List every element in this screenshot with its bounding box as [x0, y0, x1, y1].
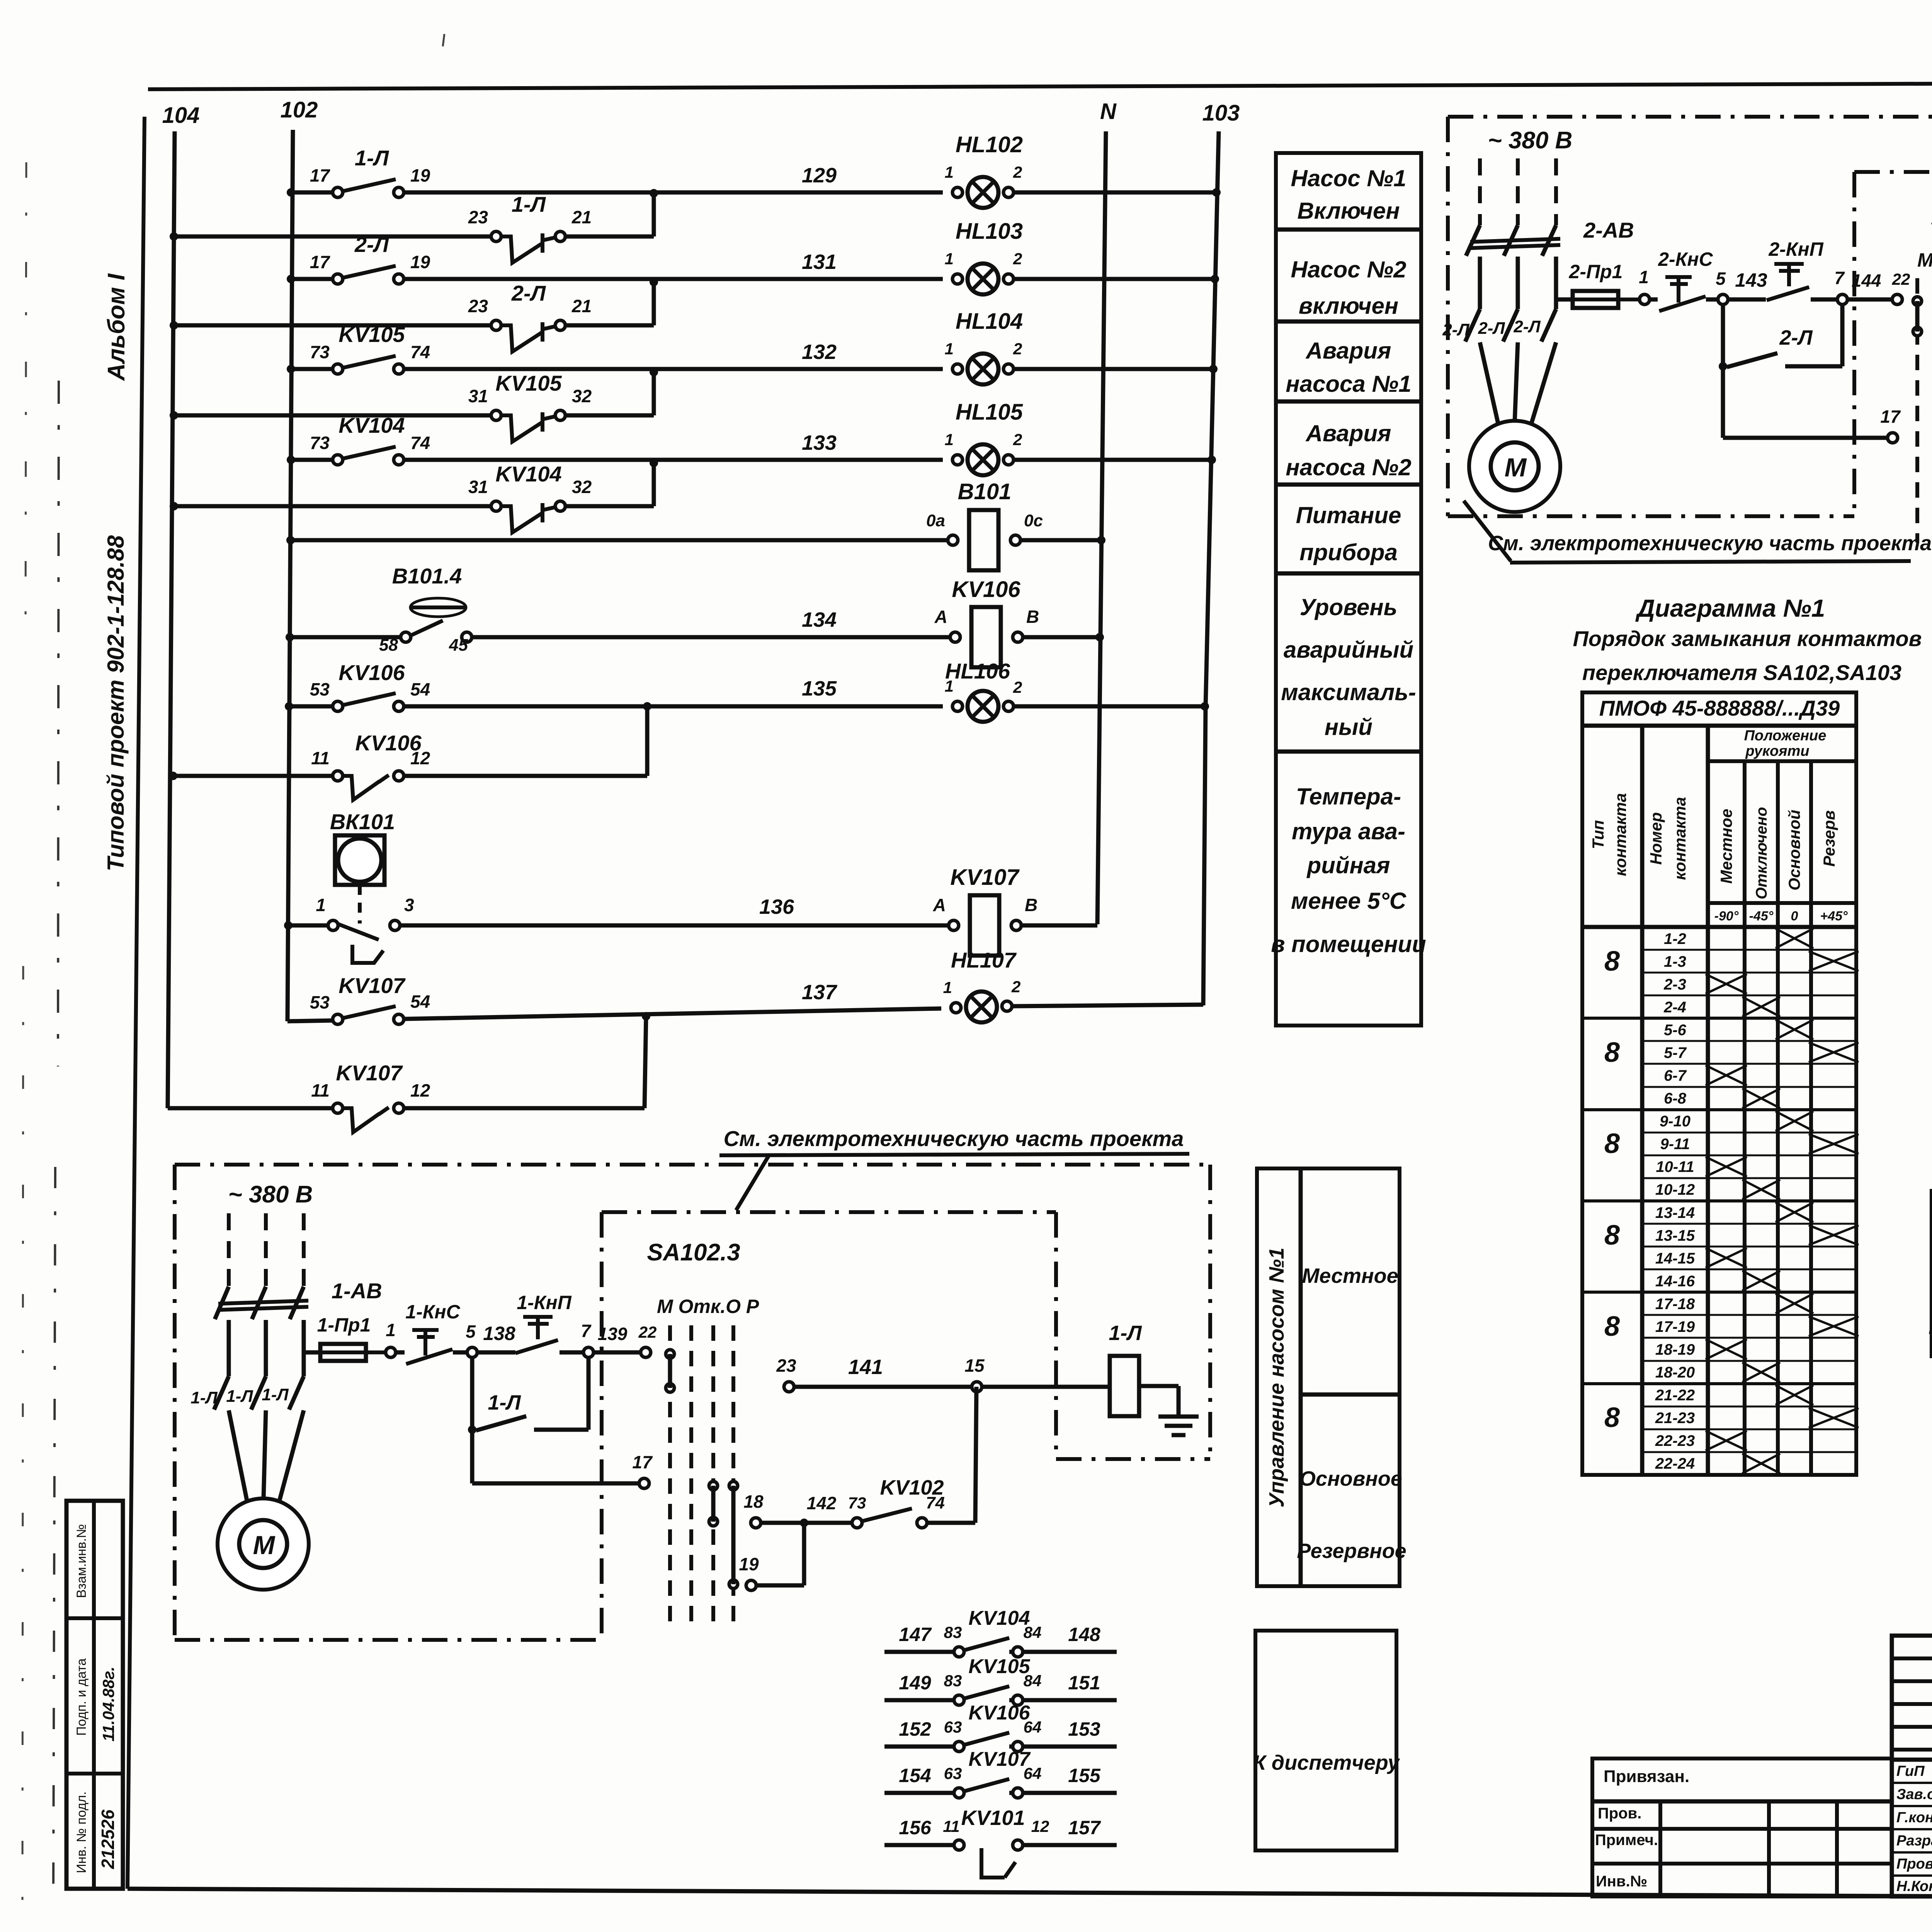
rung contact KV107 11-12 from bus 104 — [168, 1106, 333, 1111]
svg-text:SA102.3: SA102.3 — [647, 1239, 740, 1266]
svg-text:1-КнС: 1-КнС — [405, 1301, 460, 1323]
svg-text:5-7: 5-7 — [1664, 1044, 1687, 1061]
control table pump 1 — [1257, 1168, 1400, 1586]
svg-text:1: 1 — [386, 1320, 396, 1340]
svg-text:15: 15 — [964, 1355, 985, 1376]
svg-text:12: 12 — [410, 1080, 430, 1100]
svg-text:7: 7 — [1834, 268, 1845, 288]
switch row 21-22 — [1582, 1382, 1856, 1385]
svg-text:2-Л: 2-Л — [1513, 317, 1541, 336]
float symbol — [410, 598, 466, 617]
bus 102 — [287, 130, 293, 1021]
svg-text:63: 63 — [944, 1764, 962, 1782]
svg-text:2: 2 — [1011, 978, 1020, 996]
switch row 5-6 — [1582, 1017, 1856, 1020]
rung NC contact 1-Л from bus 104 — [170, 232, 178, 241]
svg-text:6-7: 6-7 — [1664, 1067, 1687, 1084]
svg-text:Отключено: Отключено — [1753, 807, 1770, 899]
drawing frame left border — [128, 117, 145, 1889]
svg-text:максималь-: максималь- — [1281, 679, 1416, 705]
svg-text:129: 129 — [802, 164, 837, 187]
svg-text:Авария: Авария — [1305, 338, 1391, 364]
svg-text:Насос №1: Насос №1 — [1291, 165, 1406, 191]
svg-text:142: 142 — [807, 1493, 837, 1513]
svg-text:134: 134 — [802, 608, 837, 631]
svg-text:63: 63 — [944, 1718, 962, 1736]
drawing frame top border — [148, 81, 1932, 89]
svg-text:2-Л: 2-Л — [1779, 326, 1813, 349]
svg-text:Тип: Тип — [1589, 820, 1607, 849]
rung NC contact 2-Л from bus 104 — [170, 321, 178, 330]
svg-text:73: 73 — [310, 342, 330, 362]
svg-text:138: 138 — [483, 1323, 515, 1344]
svg-text:2: 2 — [1013, 250, 1022, 268]
svg-text:17-18: 17-18 — [1655, 1296, 1695, 1313]
svg-text:2-4: 2-4 — [1663, 999, 1686, 1016]
svg-text:64: 64 — [1024, 1764, 1042, 1782]
svg-text:13-14: 13-14 — [1655, 1204, 1695, 1221]
svg-text:5-6: 5-6 — [1664, 1022, 1687, 1039]
wire 19 row — [746, 1580, 756, 1590]
svg-text:74: 74 — [410, 342, 430, 362]
svg-text:58: 58 — [379, 636, 398, 655]
contact row KV107 — [884, 1791, 954, 1795]
switch row 22-24 — [1642, 1451, 1856, 1453]
svg-text:17: 17 — [310, 252, 331, 272]
svg-text:83: 83 — [944, 1672, 962, 1690]
rung lamp HL105 with contact KV104 — [287, 456, 295, 464]
svg-text:ВК101: ВК101 — [330, 810, 395, 834]
ground — [1158, 1415, 1199, 1419]
enclosure dash-dot box pump1 — [175, 1163, 1210, 1167]
svg-text:рукояти: рукояти — [1745, 743, 1809, 759]
svg-text:31: 31 — [468, 386, 488, 406]
contact row KV105 — [884, 1698, 954, 1702]
svg-text:10-11: 10-11 — [1656, 1158, 1694, 1175]
wire junction down — [645, 1016, 646, 1108]
svg-text:8: 8 — [1604, 1037, 1620, 1068]
svg-text:2-Л: 2-Л — [1442, 320, 1469, 339]
wire 141 from 23 to 15 — [784, 1382, 794, 1392]
svg-text:Насос №2: Насос №2 — [1291, 257, 1406, 282]
svg-text:Привязан.: Привязан. — [1604, 1767, 1689, 1786]
terminal 1 — [386, 1347, 396, 1357]
svg-text:Уровень: Уровень — [1300, 594, 1397, 620]
svg-text:132: 132 — [802, 340, 837, 364]
svg-text:18-19: 18-19 — [1655, 1341, 1695, 1358]
svg-text:См. электротехническую часть: См. электротехническую часть проекта — [724, 1126, 1184, 1151]
svg-text:18-20: 18-20 — [1655, 1364, 1695, 1381]
contact row KV106 — [884, 1745, 954, 1749]
svg-text:Типовой проект 902-1-128.88: Типовой проект 902-1-128.88 — [103, 535, 129, 871]
svg-text:1-КнП: 1-КнП — [517, 1292, 571, 1313]
svg-text:2-КнС: 2-КнС — [1658, 248, 1713, 270]
drawing frame bottom border — [128, 1889, 1932, 1900]
svg-text:Резерв: Резерв — [1820, 810, 1838, 867]
svg-text:143: 143 — [1735, 269, 1767, 291]
contactor coil 1-L — [1110, 1356, 1139, 1416]
svg-text:Включен: Включен — [1297, 198, 1400, 224]
svg-text:Альбом I: Альбом I — [103, 273, 130, 381]
circuit breaker 2-AB — [1470, 239, 1560, 242]
svg-text:73: 73 — [310, 433, 330, 453]
svg-text:К диспетчеру: К диспетчеру — [1253, 1751, 1401, 1774]
rung lamp HL102 with contact 1-Л — [287, 188, 295, 197]
svg-text:53: 53 — [310, 679, 330, 699]
svg-text:83: 83 — [944, 1623, 962, 1641]
wire to upper rung — [652, 372, 656, 415]
svg-text:Авария: Авария — [1305, 420, 1391, 446]
svg-text:102: 102 — [281, 97, 318, 122]
svg-text:1-Л: 1-Л — [190, 1388, 218, 1407]
rung BK101 contact 1-3 with relay KV107 — [284, 921, 293, 930]
svg-text:HL106: HL106 — [945, 659, 1010, 683]
stop button 1-KnS — [412, 1328, 439, 1332]
svg-text:53: 53 — [310, 992, 330, 1012]
svg-text:2-Пр1: 2-Пр1 — [1569, 261, 1623, 282]
switch row 18-19 — [1642, 1337, 1856, 1339]
rung NC contact KV104 from bus 104 — [170, 502, 178, 510]
terminal 5 — [467, 1347, 477, 1357]
svg-text:насоса №1: насоса №1 — [1286, 371, 1411, 397]
svg-text:22: 22 — [1892, 270, 1910, 288]
svg-text:1: 1 — [945, 163, 954, 181]
svg-text:Диаграмма №1: Диаграмма №1 — [1635, 594, 1825, 622]
svg-text:В101.4: В101.4 — [392, 564, 462, 588]
switch row 14-15 — [1642, 1246, 1856, 1248]
svg-text:153: 153 — [1068, 1718, 1100, 1740]
svg-text:Пров.: Пров. — [1896, 1856, 1932, 1872]
svg-text:135: 135 — [802, 677, 837, 700]
svg-text:Пров.: Пров. — [1598, 1805, 1641, 1822]
svg-text:17-19: 17-19 — [1655, 1318, 1695, 1335]
svg-text:менее 5°С: менее 5°С — [1291, 888, 1407, 914]
svg-text:тура ава-: тура ава- — [1292, 818, 1405, 844]
svg-text:М Отк О Р: М Отк О Р — [1917, 249, 1932, 271]
left margin dashed marks — [58, 381, 59, 1066]
switch row 2-4 — [1642, 995, 1856, 997]
fuse 1-Pr1 — [304, 1350, 320, 1355]
svg-text:11: 11 — [311, 1080, 330, 1100]
contact row KV101 — [884, 1843, 954, 1847]
wire from KV106 11-12 up — [645, 706, 650, 776]
svg-text:1-Л: 1-Л — [1109, 1321, 1142, 1345]
switch row 21-23 — [1642, 1406, 1856, 1408]
svg-text:2-Л: 2-Л — [511, 281, 546, 305]
rung contact KV106 53-54 with lamp HL106 — [285, 702, 293, 711]
svg-text:2: 2 — [1013, 340, 1022, 358]
svg-text:19: 19 — [410, 165, 430, 185]
terminal 5 pump2 — [1718, 294, 1728, 304]
svg-text:Резервное: Резервное — [1297, 1539, 1406, 1563]
svg-text:17: 17 — [632, 1452, 653, 1472]
switch row 1-3 — [1642, 949, 1856, 951]
svg-text:212526: 212526 — [98, 1810, 118, 1869]
svg-text:141: 141 — [848, 1355, 883, 1379]
svg-text:154: 154 — [899, 1765, 931, 1786]
svg-text:2: 2 — [1013, 163, 1022, 181]
svg-text:64: 64 — [1024, 1718, 1042, 1736]
switch row 13-14 — [1582, 1199, 1856, 1202]
svg-text:18: 18 — [743, 1492, 764, 1512]
svg-text:Инв. № подл.: Инв. № подл. — [74, 1791, 89, 1873]
svg-text:156: 156 — [899, 1817, 932, 1838]
switch row 9-11 — [1642, 1132, 1856, 1134]
svg-text:104: 104 — [162, 103, 200, 128]
svg-text:19: 19 — [410, 252, 430, 272]
svg-text:+45°: +45° — [1820, 909, 1848, 923]
switch row 17-18 — [1582, 1291, 1856, 1294]
switch row 2-3 — [1642, 972, 1856, 974]
circuit breaker 1-AB — [218, 1301, 308, 1304]
svg-text:Примеч.: Примеч. — [1595, 1832, 1658, 1849]
svg-text:8: 8 — [1604, 1402, 1620, 1433]
svg-text:21-22: 21-22 — [1655, 1387, 1695, 1404]
svg-text:М: М — [1505, 453, 1527, 482]
svg-text:1-Л: 1-Л — [488, 1391, 521, 1414]
svg-text:в помещении: в помещении — [1271, 931, 1426, 957]
svg-text:157: 157 — [1068, 1817, 1101, 1838]
svg-text:0: 0 — [1791, 909, 1798, 923]
rung contact KV107 53-54 with lamp HL107 — [287, 1020, 333, 1021]
svg-text:11: 11 — [943, 1817, 960, 1835]
svg-text:21: 21 — [571, 296, 592, 316]
svg-text:137: 137 — [802, 981, 838, 1004]
svg-text:-90°: -90° — [1714, 909, 1739, 923]
svg-text:6-8: 6-8 — [1664, 1090, 1687, 1107]
legend table column — [1276, 153, 1421, 1026]
wire to upper rung — [652, 463, 656, 506]
terminal 7 pump2 — [1837, 294, 1847, 304]
three phase lines — [227, 1213, 231, 1287]
svg-text:Подп. и дата: Подп. и дата — [74, 1658, 89, 1736]
svg-text:А: А — [934, 607, 947, 627]
wire to upper rung — [652, 282, 656, 325]
svg-text:Зав.отд.: Зав.отд. — [1896, 1786, 1932, 1803]
svg-text:22: 22 — [638, 1323, 657, 1341]
svg-text:Управление насосом №1: Управление насосом №1 — [1265, 1248, 1288, 1508]
svg-text:-45°: -45° — [1749, 909, 1774, 923]
svg-text:М Отк.О Р: М Отк.О Р — [657, 1296, 759, 1317]
dispatcher box — [1255, 1631, 1396, 1850]
svg-text:147: 147 — [899, 1624, 932, 1645]
svg-text:А: А — [933, 895, 946, 915]
switch row 22-23 — [1642, 1429, 1856, 1430]
svg-text:54: 54 — [410, 992, 430, 1012]
motor M1 — [218, 1498, 309, 1590]
switch row 6-7 — [1642, 1063, 1856, 1065]
svg-text:Положение: Положение — [1744, 728, 1827, 744]
svg-text:~ 380 В: ~ 380 В — [228, 1181, 313, 1208]
svg-text:17: 17 — [310, 165, 331, 185]
svg-text:Разраб.: Разраб. — [1896, 1833, 1932, 1849]
svg-text:136: 136 — [759, 895, 794, 918]
wire to upper rung — [652, 193, 656, 236]
svg-text:84: 84 — [1024, 1623, 1042, 1641]
wire to terminal 17 pump2 — [1721, 366, 1725, 438]
svg-text:23: 23 — [468, 296, 488, 316]
svg-text:9-10: 9-10 — [1660, 1113, 1690, 1130]
svg-text:84: 84 — [1024, 1672, 1042, 1690]
svg-text:10-12: 10-12 — [1655, 1181, 1695, 1198]
switch row 5-7 — [1642, 1040, 1856, 1042]
svg-text:HL103: HL103 — [956, 219, 1023, 244]
svg-text:Основное: Основное — [1299, 1467, 1402, 1490]
relay coil KV106 — [950, 632, 960, 642]
float sensor contact B101.4 rung with relay KV106 — [286, 633, 294, 641]
svg-text:KV106: KV106 — [952, 577, 1020, 602]
svg-text:Г.конст.: Г.конст. — [1896, 1810, 1932, 1826]
svg-text:Порядок замыкания контактов: Порядок замыкания контактов — [1573, 626, 1922, 651]
svg-text:1: 1 — [1639, 267, 1649, 287]
svg-text:1-Пр1: 1-Пр1 — [317, 1314, 371, 1336]
svg-text:1-АВ: 1-АВ — [332, 1279, 382, 1303]
svg-text:насоса №2: насоса №2 — [1286, 454, 1411, 480]
svg-text:22-24: 22-24 — [1655, 1455, 1695, 1472]
svg-text:контакта: контакта — [1611, 793, 1629, 876]
svg-text:включен: включен — [1299, 293, 1398, 319]
rung lamp HL104 with contact KV105 — [287, 365, 295, 373]
svg-text:1: 1 — [945, 250, 954, 268]
svg-text:0с: 0с — [1024, 511, 1043, 530]
svg-text:1-Л: 1-Л — [226, 1387, 253, 1406]
svg-text:131: 131 — [802, 250, 837, 274]
svg-text:ный: ный — [1325, 714, 1372, 740]
svg-text:31: 31 — [468, 477, 488, 497]
svg-text:N: N — [1100, 99, 1117, 124]
svg-text:1-Л: 1-Л — [262, 1385, 289, 1404]
svg-text:Н.Контр.: Н.Контр. — [1896, 1878, 1932, 1895]
terminal 22 pump2 — [1892, 294, 1902, 304]
self hold contact 1-L — [470, 1357, 474, 1430]
svg-text:KV104: KV104 — [969, 1607, 1030, 1629]
svg-text:Номер: Номер — [1647, 812, 1665, 865]
svg-text:12: 12 — [1031, 1817, 1049, 1835]
svg-text:45: 45 — [449, 636, 468, 655]
left stamp table — [66, 1501, 123, 1889]
rung NC contact KV105 from bus 104 — [170, 411, 178, 420]
svg-text:13-15: 13-15 — [1655, 1227, 1695, 1244]
svg-text:148: 148 — [1068, 1624, 1100, 1645]
svg-text:2: 2 — [1013, 430, 1022, 449]
svg-text:Темпера-: Темпера- — [1296, 784, 1401, 810]
svg-text:2-3: 2-3 — [1663, 976, 1686, 993]
svg-text:~ 380 В: ~ 380 В — [1488, 127, 1573, 154]
switch row 10-12 — [1642, 1177, 1856, 1179]
svg-text:32: 32 — [572, 477, 592, 497]
svg-text:2-АВ: 2-АВ — [1583, 218, 1634, 242]
svg-text:См. электротехническую часть: См. электротехническую часть проекта — [1488, 532, 1932, 555]
svg-text:3: 3 — [404, 895, 414, 915]
svg-text:М: М — [253, 1531, 276, 1560]
svg-text:21-23: 21-23 — [1655, 1410, 1695, 1427]
svg-text:В: В — [1025, 895, 1037, 915]
svg-text:73: 73 — [848, 1494, 866, 1512]
switch row 6-8 — [1642, 1086, 1856, 1088]
svg-text:17: 17 — [1880, 406, 1901, 427]
svg-text:KV101: KV101 — [961, 1806, 1025, 1830]
bus 103 — [1203, 131, 1219, 1005]
PMOF switch table — [1582, 692, 1856, 1475]
main title block — [1892, 1636, 1932, 1896]
svg-text:1: 1 — [316, 895, 326, 915]
svg-text:Местное: Местное — [1717, 809, 1735, 884]
contact row KV104 — [884, 1650, 954, 1654]
svg-text:22-23: 22-23 — [1655, 1432, 1695, 1449]
rung contact KV106 11-12 from bus 104 — [169, 772, 177, 780]
svg-text:В: В — [1026, 607, 1039, 627]
svg-text:2-Л: 2-Л — [1478, 319, 1505, 338]
svg-text:1: 1 — [945, 430, 954, 449]
fuse 2-Pr1 — [1556, 298, 1573, 302]
stop button 2-KnS — [1665, 275, 1692, 279]
svg-text:152: 152 — [899, 1718, 931, 1740]
svg-text:KV104: KV104 — [495, 462, 561, 486]
svg-text:KV107: KV107 — [950, 865, 1020, 890]
svg-text:1-Л: 1-Л — [512, 192, 546, 216]
terminal 7 — [583, 1347, 594, 1357]
svg-text:14-16: 14-16 — [1655, 1273, 1695, 1290]
svg-text:КТ101,КТ102: КТ101,КТ102 — [1929, 1320, 1932, 1337]
svg-text:54: 54 — [410, 679, 430, 699]
svg-text:KV106: KV106 — [969, 1702, 1031, 1724]
svg-text:переключателя SA102,SA103: переключателя SA102,SA103 — [1582, 660, 1901, 685]
svg-text:5: 5 — [466, 1321, 476, 1342]
svg-text:155: 155 — [1068, 1765, 1101, 1786]
device B101 power rung — [286, 536, 295, 544]
small page mark top — [443, 34, 444, 46]
svg-text:103: 103 — [1202, 100, 1240, 126]
svg-text:74: 74 — [410, 433, 430, 453]
svg-text:5: 5 — [1716, 269, 1726, 289]
svg-text:ПМОФ 45-888888/...Д39: ПМОФ 45-888888/...Д39 — [1599, 696, 1840, 720]
svg-text:KV106: KV106 — [338, 660, 405, 685]
svg-text:0а: 0а — [926, 511, 945, 530]
terminal 22 — [641, 1347, 651, 1357]
svg-text:В101: В101 — [958, 479, 1012, 504]
svg-text:прибора: прибора — [1299, 539, 1398, 565]
switch row 17-19 — [1642, 1314, 1856, 1316]
svg-text:ГиП: ГиП — [1896, 1763, 1925, 1779]
svg-text:1: 1 — [945, 340, 954, 358]
attachment stamp table — [1592, 1759, 1892, 1896]
svg-text:HL105: HL105 — [956, 400, 1023, 425]
svg-text:1: 1 — [943, 978, 952, 997]
svg-text:144: 144 — [1852, 270, 1881, 291]
svg-text:HL104: HL104 — [956, 309, 1023, 334]
svg-text:KV107: KV107 — [338, 973, 406, 998]
svg-text:KV105: KV105 — [495, 371, 562, 395]
switch row 14-16 — [1642, 1269, 1856, 1270]
svg-text:14-15: 14-15 — [1655, 1250, 1695, 1267]
switch row 9-10 — [1582, 1108, 1856, 1111]
svg-text:Основной: Основной — [1785, 810, 1803, 890]
svg-text:рийная: рийная — [1306, 852, 1390, 878]
svg-text:HL107: HL107 — [951, 948, 1017, 972]
start button 1-KnP — [523, 1315, 553, 1319]
svg-text:1-3: 1-3 — [1664, 953, 1686, 970]
svg-text:аварийный: аварийный — [1284, 637, 1413, 663]
motor M2 — [1469, 421, 1560, 512]
svg-text:KV102: KV102 — [880, 1476, 944, 1499]
start button 2-KnP — [1774, 262, 1804, 266]
svg-text:2-КнП: 2-КнП — [1768, 238, 1823, 260]
svg-text:Питание: Питание — [1296, 502, 1401, 528]
svg-text:19: 19 — [739, 1554, 759, 1574]
svg-text:Местное: Местное — [1302, 1264, 1398, 1287]
svg-text:149: 149 — [899, 1672, 931, 1694]
svg-text:2: 2 — [1013, 678, 1022, 696]
